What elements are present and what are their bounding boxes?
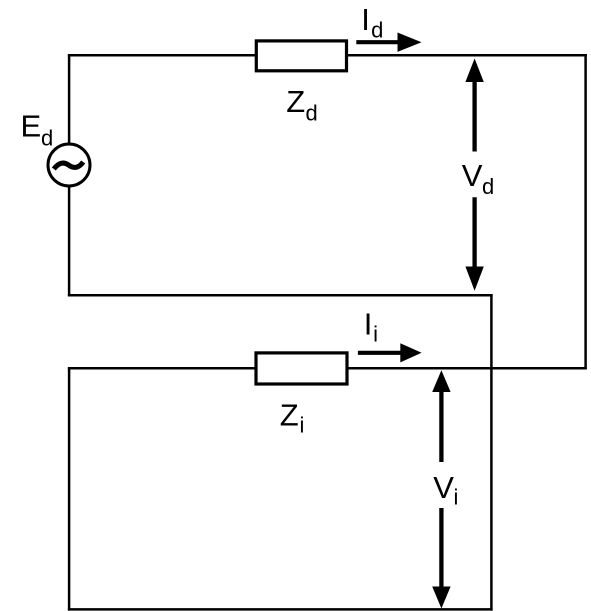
svg-text:V: V (433, 470, 454, 505)
svg-text:Z: Z (286, 84, 305, 119)
svg-text:d: d (482, 174, 494, 199)
svg-text:Z: Z (280, 398, 299, 433)
svg-text:V: V (462, 158, 483, 193)
svg-text:E: E (21, 108, 42, 143)
svg-text:i: i (454, 484, 459, 509)
svg-text:d: d (371, 18, 383, 43)
svg-text:d: d (41, 126, 53, 151)
svg-text:d: d (306, 101, 318, 126)
svg-text:i: i (300, 413, 305, 438)
svg-text:i: i (373, 322, 378, 347)
svg-text:I: I (361, 2, 370, 37)
svg-text:I: I (364, 306, 373, 341)
